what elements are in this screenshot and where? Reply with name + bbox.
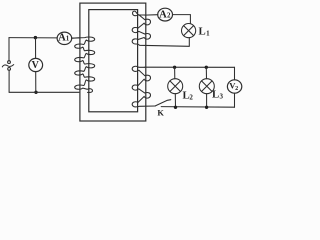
node: junction dot L2 bottom xyxy=(174,106,177,109)
svg-text:2: 2 xyxy=(189,94,193,102)
wire: source left vertical lower xyxy=(8,70,10,92)
lamp L3 xyxy=(199,79,214,94)
secondary upper coil (right) xyxy=(132,11,189,46)
AC source terminal circle bottom xyxy=(8,68,11,71)
ammeter A2 xyxy=(158,8,173,21)
wire: L3 branch bottom xyxy=(206,94,208,108)
voltmeter V xyxy=(29,58,43,71)
svg-text:A: A xyxy=(159,9,167,20)
wire: voltmeter branch down from top wire xyxy=(35,38,37,59)
wire: A1 to primary coil xyxy=(72,37,80,39)
switch K blade xyxy=(155,100,171,106)
secondary lower coil (right) xyxy=(132,66,155,107)
transformer core inner rectangle xyxy=(89,10,138,112)
wire: bottom wire from source to primary coil xyxy=(9,91,79,93)
AC source tilde xyxy=(2,65,13,67)
lamp L2 xyxy=(168,79,183,94)
svg-text:3: 3 xyxy=(220,93,224,101)
svg-text:2: 2 xyxy=(167,12,171,20)
wire: bottom wire right segment xyxy=(161,106,234,109)
wire: upper coil top to A2 xyxy=(145,14,158,16)
node: junction dot L3 bottom xyxy=(205,106,208,109)
wire: V2 branch bottom xyxy=(234,93,236,107)
wire: voltmeter bottom to bottom wire xyxy=(35,72,37,93)
voltmeter V2 xyxy=(227,80,241,93)
svg-text:K: K xyxy=(157,108,164,117)
ammeter A1 xyxy=(57,32,72,44)
AC source terminal circle top xyxy=(8,61,11,64)
primary coil (left) xyxy=(72,37,95,92)
svg-text:1: 1 xyxy=(206,30,210,38)
wire: V2 branch top xyxy=(234,67,236,80)
wire: L3 branch top xyxy=(205,67,207,78)
wire: source left vertical upper xyxy=(8,38,10,61)
transformer core outer rectangle xyxy=(80,3,146,121)
node: junction dot L2 top xyxy=(173,66,176,69)
node: junction dot L3 top xyxy=(205,66,208,69)
wire: L2 branch bottom xyxy=(174,94,176,108)
node: junction dot top of voltmeter branch xyxy=(34,36,37,39)
svg-text:L: L xyxy=(199,25,206,37)
wire: L1 bottom, down then left to coil xyxy=(188,38,190,47)
wire: L2 branch top xyxy=(174,67,176,78)
svg-text:2: 2 xyxy=(235,85,238,92)
wire: A2 right then down to lamp L1 xyxy=(173,15,191,24)
wire: lower coil top terminal to V2 branch xyxy=(145,66,235,68)
svg-text:1: 1 xyxy=(66,35,70,43)
node: junction dot bottom of voltmeter branch xyxy=(34,91,37,94)
lamp L1 xyxy=(182,24,196,38)
svg-text:V: V xyxy=(32,60,40,71)
svg-text:L: L xyxy=(212,89,219,101)
wire: top wire from source to A1 xyxy=(9,37,57,39)
